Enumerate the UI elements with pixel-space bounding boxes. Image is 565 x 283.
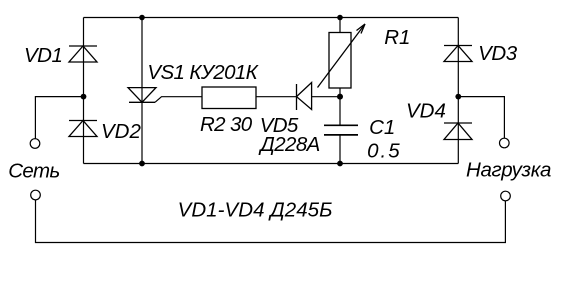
svg-text:VD3: VD3 [478, 42, 518, 65]
svg-text:0.5: 0.5 [367, 139, 402, 162]
svg-text:C1: C1 [369, 116, 395, 139]
svg-text:Сеть: Сеть [8, 160, 59, 183]
svg-text:VD4: VD4 [406, 100, 446, 123]
svg-text:VD1-VD4 Д245Б: VD1-VD4 Д245Б [178, 199, 333, 222]
svg-text:VS1 КУ201К: VS1 КУ201К [147, 61, 259, 84]
svg-text:Нагрузка: Нагрузка [466, 159, 551, 182]
svg-text:R1: R1 [384, 26, 410, 49]
svg-text:VD2: VD2 [101, 120, 141, 143]
svg-text:R2 30: R2 30 [200, 113, 253, 136]
svg-text:VD1: VD1 [24, 44, 62, 67]
svg-text:Д228А: Д228А [258, 133, 319, 156]
